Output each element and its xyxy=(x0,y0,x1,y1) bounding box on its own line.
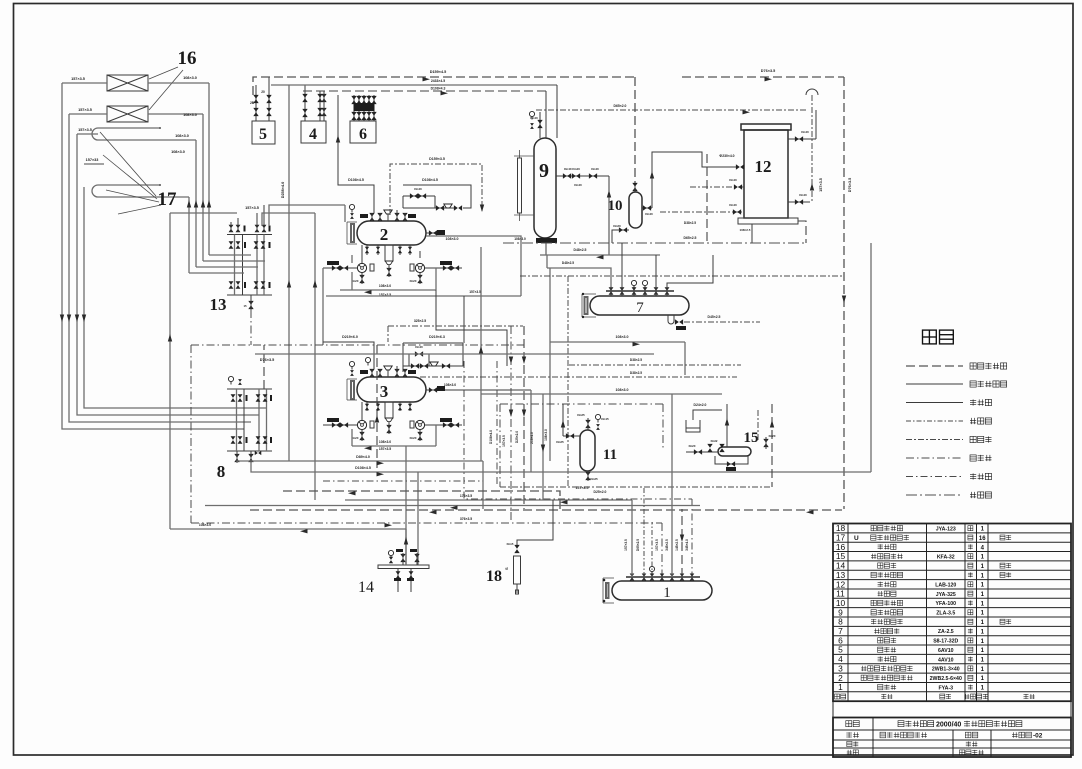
heat exchanger 16a (crossed box) xyxy=(107,75,148,91)
left drop from pump discharge xyxy=(322,268,324,345)
svg-text:D159×4.5: D159×4.5 xyxy=(430,70,447,74)
svg-text:D65×2.5: D65×2.5 xyxy=(684,236,697,240)
vessel 7 receiver xyxy=(590,296,689,315)
station 13 valve row 2 xyxy=(229,241,234,248)
svg-text:Dn25: Dn25 xyxy=(577,413,585,417)
svg-text:2433×4.5: 2433×4.5 xyxy=(431,79,445,83)
svg-text:D65×2.0: D65×2.0 xyxy=(614,104,627,108)
loop lower line xyxy=(326,295,436,297)
pipe 157x3.5 into HX16a xyxy=(62,82,107,84)
drop line right xyxy=(417,472,419,565)
station 8 top dashed vent D76x3.5 xyxy=(263,345,265,389)
vessel 3 top valves xyxy=(369,369,374,377)
vessel 10 left drain valve xyxy=(620,229,629,231)
vessel 1 drain barrel xyxy=(612,581,712,600)
svg-text:Dn25: Dn25 xyxy=(590,477,598,481)
svg-text:D89×4.0: D89×4.0 xyxy=(356,455,370,459)
svg-text:Dn20: Dn20 xyxy=(352,279,359,283)
svg-text:Dn20: Dn20 xyxy=(769,434,776,438)
legend row 空气管 xyxy=(906,457,963,459)
legend row 液体管 xyxy=(906,402,963,404)
svg-text:Dn15: Dn15 xyxy=(507,542,514,546)
svg-text:108×3.0: 108×3.0 xyxy=(544,429,548,441)
svg-text:15: 15 xyxy=(243,304,247,308)
svg-text:108×2.5: 108×2.5 xyxy=(740,228,751,232)
long liquid line 108x3.0 xyxy=(255,353,654,355)
vessel 3 recirculation loop xyxy=(352,445,436,447)
svg-text:Dn40: Dn40 xyxy=(574,183,582,187)
station 8 valve row 2 xyxy=(231,436,236,443)
air bottom trunk D76x3.5 xyxy=(191,522,662,524)
vessel 7 gauges xyxy=(631,280,636,288)
vessel 12 inlet valve xyxy=(736,164,744,169)
svg-text:325×2.5: 325×2.5 xyxy=(414,319,426,323)
svg-text:157×3.5: 157×3.5 xyxy=(245,206,259,210)
coil feed pipe 157x3.5 xyxy=(77,133,98,135)
instrument 18 riser xyxy=(517,500,553,545)
pump discharge left vessel 3 xyxy=(323,424,357,426)
svg-text:Dn20: Dn20 xyxy=(613,224,621,228)
ammonia pump P2b xyxy=(415,263,424,272)
station 13 drain dash-dot xyxy=(250,310,252,345)
gray riser x550 under 9 xyxy=(549,268,551,461)
unit 5 risers with valves xyxy=(255,85,257,121)
hp dashed bottom trunk lower xyxy=(250,509,842,511)
vessel 7 riser a xyxy=(621,243,623,286)
liquid line 157x3.5 bottom xyxy=(345,499,632,501)
vessel 12 top flange xyxy=(741,124,791,130)
svg-text:Dn25: Dn25 xyxy=(556,440,564,444)
svg-text:2000/40: 2000/40 xyxy=(936,721,961,728)
svg-text:108×3.0: 108×3.0 xyxy=(199,523,211,527)
svg-text:345×2.5: 345×2.5 xyxy=(665,539,669,551)
vessel 3 gauge circle top xyxy=(365,357,370,365)
svg-text:D219×6.0: D219×6.0 xyxy=(342,335,358,339)
vessel 3 low pressure receiver xyxy=(357,377,426,402)
vessel 9 top gauge xyxy=(529,111,534,119)
manifold 14 riser xyxy=(405,529,407,565)
riser to coil return b xyxy=(195,140,197,267)
heat exchanger 16b (crossed box) xyxy=(107,106,148,122)
vertical dashed drop to vessel 10 xyxy=(634,77,636,185)
vessel 2 level gauge xyxy=(351,224,354,242)
svg-text:Dn20: Dn20 xyxy=(352,436,359,440)
vessel 3 feed line D219x6.0 xyxy=(323,342,374,369)
safety drop right of 12 xyxy=(811,95,813,202)
trunk D133x4.5 xyxy=(271,84,557,86)
svg-text:D108×4.5: D108×4.5 xyxy=(348,178,364,182)
svg-text:1: 1 xyxy=(663,585,671,601)
vessel 9 level gauge xyxy=(518,158,522,213)
oil collector enclosure dash-dot xyxy=(500,403,663,405)
svg-text:D76×3.5: D76×3.5 xyxy=(761,69,775,73)
station 8 outlet D108x4.5 xyxy=(251,463,871,472)
unit 4 box xyxy=(301,121,326,143)
svg-text:D76×3.5: D76×3.5 xyxy=(260,358,274,362)
svg-text:108×3.0: 108×3.0 xyxy=(615,388,628,392)
svg-text:Dn40 Dn40: Dn40 Dn40 xyxy=(564,167,580,171)
svg-text:Dn40: Dn40 xyxy=(729,203,737,207)
svg-text:2WB1-3×40: 2WB1-3×40 xyxy=(932,667,960,673)
liquid line 108x3.0 to 15 xyxy=(550,341,685,343)
oil drain network to vessel 1 xyxy=(464,361,692,499)
left riser pipe 3 xyxy=(77,134,259,415)
svg-text:6AV10: 6AV10 xyxy=(938,648,954,654)
high pressure trunk D76x3.5 top right xyxy=(682,76,844,78)
vessel 9 drain pipe to 7 xyxy=(546,255,548,268)
svg-text:157×3.5: 157×3.5 xyxy=(655,539,659,551)
svg-text:108×3.0: 108×3.0 xyxy=(379,440,391,444)
svg-text:12: 12 xyxy=(755,157,772,176)
vessel 3 centre drop xyxy=(385,402,393,418)
line 108x3.0 from vessel 2 right xyxy=(426,236,521,268)
liquid line 2 bottom xyxy=(205,505,700,507)
station 13 top feed 157x3.5 xyxy=(170,212,237,214)
safety header to vessel 12 xyxy=(536,109,806,111)
svg-text:345×4.0: 345×4.0 xyxy=(685,539,689,551)
svg-text:219×4.0: 219×4.0 xyxy=(530,432,534,444)
svg-text:D48×2.5: D48×2.5 xyxy=(574,248,587,252)
vessel 2 top valves xyxy=(369,213,374,221)
vessel 11 oil collector xyxy=(580,430,595,471)
vessel 12 left lower dashed xyxy=(660,211,744,213)
station 13 inlet valve row above header xyxy=(229,225,234,232)
hp dashed bottom trunk upper xyxy=(283,491,560,510)
svg-text:D159×3.5: D159×3.5 xyxy=(429,157,445,161)
vessel 1 valve header xyxy=(626,576,700,578)
vessel 2 relief loop xyxy=(403,195,435,197)
riser from HX16a xyxy=(208,83,210,255)
vessel 7 drain xyxy=(668,315,674,324)
svg-text:D108×4.0: D108×4.0 xyxy=(489,430,493,444)
unit 15 separator body xyxy=(718,447,751,456)
svg-text:2B: 2B xyxy=(250,101,255,105)
unit 15 right valve xyxy=(763,439,768,447)
svg-text:S8-17-32D: S8-17-32D xyxy=(933,639,958,645)
vessel 2 recirculation loop xyxy=(340,289,436,291)
safety drop x568 xyxy=(567,276,569,487)
legend row 安全管 xyxy=(906,439,963,441)
svg-text:17: 17 xyxy=(158,189,178,210)
vessel 3 feed funnel xyxy=(384,366,392,370)
svg-text:JYA-325: JYA-325 xyxy=(936,592,956,598)
drop from 15 line xyxy=(684,342,686,375)
svg-text:157×3.5: 157×3.5 xyxy=(624,539,628,551)
unit 15 open box xyxy=(686,420,700,432)
drain trunk D45x2.5 dash-dot xyxy=(503,242,806,244)
svg-text:D48×2.5: D48×2.5 xyxy=(562,261,574,265)
legend row 平衡管 xyxy=(906,420,963,422)
svg-text:D258×4.0: D258×4.0 xyxy=(281,182,285,199)
legend title tu-li xyxy=(923,330,937,344)
vessel 2 suction stems xyxy=(366,245,368,255)
vessel 12 dashed drop D38x2.5 xyxy=(706,154,708,243)
svg-text:Dn20: Dn20 xyxy=(410,436,417,440)
vessel 7 top valve row xyxy=(606,290,674,292)
pipe down from 9 outlet xyxy=(608,176,610,255)
svg-text:-02: -02 xyxy=(1033,732,1043,739)
station 13 drain valve xyxy=(248,301,253,309)
vessel 11 inlet valve left xyxy=(563,435,580,437)
riser x289 main suction D258x4.0 xyxy=(288,85,290,461)
svg-text:15: 15 xyxy=(744,430,759,446)
safety dashed bottom of enclosure xyxy=(500,486,772,488)
svg-text:157×3.5: 157×3.5 xyxy=(819,178,823,192)
svg-text:3: 3 xyxy=(380,382,389,401)
air drop to vessel 1 xyxy=(661,523,663,577)
vessel 2 safety dashed line D159x3.5 xyxy=(390,164,482,215)
unit 15 riser with arrow xyxy=(726,404,728,447)
svg-text:D25×2.0: D25×2.0 xyxy=(515,431,519,443)
svg-text:U: U xyxy=(854,535,859,542)
svg-text:D76×3.5: D76×3.5 xyxy=(848,178,852,192)
svg-text:157×3.5: 157×3.5 xyxy=(78,108,92,112)
svg-text:157×33: 157×33 xyxy=(86,158,99,162)
svg-text:157×3.5: 157×3.5 xyxy=(502,435,506,447)
svg-text:18: 18 xyxy=(486,568,502,585)
svg-text:D219×6.3: D219×6.3 xyxy=(429,335,445,339)
pump discharge left xyxy=(323,267,357,269)
riser x315 to bottom xyxy=(314,213,316,500)
riser x345 xyxy=(344,205,346,222)
svg-text:Dn40: Dn40 xyxy=(801,130,809,134)
vessel 12 safety line left xyxy=(690,186,744,188)
vessel 12 bottom drain xyxy=(751,224,753,243)
svg-text:D108×4.5: D108×4.5 xyxy=(422,178,438,182)
pipe out of HX16b xyxy=(148,113,203,115)
vessel 12 top right valve xyxy=(788,138,816,140)
svg-text:D108×4.3: D108×4.3 xyxy=(431,87,446,91)
vessel 2 gauge instrument xyxy=(349,204,354,212)
svg-text:YFA-100: YFA-100 xyxy=(936,601,957,607)
vessel 9 middle cooler xyxy=(534,138,556,238)
vessel 3 drop to manifold 14 xyxy=(405,446,407,565)
legend row 放油管 xyxy=(906,476,963,478)
station 13 valve row 3 xyxy=(229,281,234,288)
svg-text:157×3.5: 157×3.5 xyxy=(379,447,391,451)
svg-text:108×3.0: 108×3.0 xyxy=(183,113,197,117)
svg-text:20: 20 xyxy=(261,90,265,94)
vertical from 12 area down right xyxy=(870,243,872,472)
svg-text:108×3.0: 108×3.0 xyxy=(445,237,458,241)
svg-text:2: 2 xyxy=(380,225,389,244)
ammonia pump P2a xyxy=(357,263,366,272)
svg-text:16: 16 xyxy=(178,48,197,69)
U-coil 17 upper xyxy=(98,127,160,129)
hook jump symbol xyxy=(806,89,818,95)
station 8 drain valves xyxy=(234,454,239,462)
vessel 7 riser b xyxy=(655,255,657,286)
svg-text:2WB2.5-6×40: 2WB2.5-6×40 xyxy=(930,676,962,682)
svg-text:Dn40: Dn40 xyxy=(591,167,599,171)
title row ban-ji / ri-qi xyxy=(847,741,852,746)
title row xing-ming / zhi-dao xyxy=(847,750,852,755)
station 8 risers xyxy=(236,389,238,451)
unit 6 riser cluster with valves xyxy=(353,95,355,121)
vessel 10 right outlet xyxy=(642,207,652,209)
svg-text:157×3.5: 157×3.5 xyxy=(575,486,588,490)
svg-text:108×3.0: 108×3.0 xyxy=(379,284,391,288)
svg-text:D38×2.5: D38×2.5 xyxy=(630,371,642,375)
long liquid line to right xyxy=(481,393,722,395)
dashed drop right of 15 xyxy=(757,410,759,440)
valve station 8 headers xyxy=(227,388,272,390)
liquid drop x543 to bottom xyxy=(542,394,544,500)
BOM to title gap sides xyxy=(832,701,834,717)
pump discharge right vessel 3 xyxy=(425,424,462,426)
station 8 outlet D89x4.0 xyxy=(237,461,483,463)
svg-text:14: 14 xyxy=(358,579,374,596)
svg-text:13: 13 xyxy=(210,295,227,314)
oil return line D48x2.5 xyxy=(540,254,547,256)
svg-text:ZLA-3.5: ZLA-3.5 xyxy=(936,611,955,617)
riser to coil 17 return a xyxy=(188,197,190,273)
drop from vessel2 loop to relief 3 xyxy=(436,290,507,366)
ammonia pump P3b xyxy=(415,420,424,429)
unit 15 feed D24x2.0 xyxy=(693,410,722,420)
legend row 低压气体管 xyxy=(906,383,963,385)
svg-text:Φ230×4.0: Φ230×4.0 xyxy=(719,154,734,158)
vessel 1 left bracket xyxy=(602,578,604,603)
vessel 3 level gauge xyxy=(351,381,354,399)
vessel 12 bottom flange xyxy=(738,218,798,224)
vessel 9 riser to trunk xyxy=(545,91,547,138)
vessel 7 drain dashed D45x2.5 xyxy=(684,321,760,323)
title row tu-ming xyxy=(846,732,852,738)
station 13 left header riser xyxy=(169,213,171,529)
safety segment above vessel 3 xyxy=(388,325,523,327)
unit 6 box xyxy=(350,121,376,143)
instrument 18 valve xyxy=(514,545,519,553)
pipe 157x3.5 into HX16b xyxy=(69,113,107,115)
svg-text:D24×2.0: D24×2.0 xyxy=(694,403,707,407)
vessel 1 valve row xyxy=(630,574,635,581)
left riser pipe 2 xyxy=(69,114,251,422)
unit 5 box xyxy=(252,121,275,144)
svg-text:11: 11 xyxy=(603,447,617,463)
unit 15 inlet valves xyxy=(686,451,718,453)
svg-text:D65×2.5: D65×2.5 xyxy=(636,539,640,551)
svg-text:Dn20: Dn20 xyxy=(689,444,696,448)
manifold 14 bottom stems xyxy=(397,569,399,593)
station 13 risers xyxy=(234,235,236,296)
svg-text:ZA-2.5: ZA-2.5 xyxy=(938,629,954,635)
svg-text:145×2.5: 145×2.5 xyxy=(675,539,679,551)
svg-text:6: 6 xyxy=(359,126,367,143)
pump suction manifold vessel 2 xyxy=(351,255,353,263)
vessel 2 feed funnel xyxy=(384,210,392,214)
svg-text:JYA-123: JYA-123 xyxy=(936,526,956,532)
station 8 gauge xyxy=(228,376,233,384)
svg-text:7: 7 xyxy=(636,300,644,316)
trunk D108x4.3 dashed xyxy=(303,90,546,92)
hp dashed riser x377 xyxy=(376,345,378,468)
hp dashed drop x524 xyxy=(523,326,525,509)
vessel 2 centre drop funnel xyxy=(385,245,393,261)
line to vessel 9 area xyxy=(436,295,521,297)
safety dashed pair above 11 xyxy=(569,364,741,366)
svg-text:108×3.0: 108×3.0 xyxy=(183,76,197,80)
pipe from 10 up to 12 xyxy=(652,152,738,208)
svg-text:Dn20: Dn20 xyxy=(410,279,417,283)
svg-text:LAB-120: LAB-120 xyxy=(935,582,956,588)
svg-text:D25×2.0: D25×2.0 xyxy=(594,490,607,494)
vessel 1 risers xyxy=(631,500,633,577)
svg-text:S: S xyxy=(504,567,509,570)
svg-text:108×3.0: 108×3.0 xyxy=(175,134,189,138)
unit 15 drain loop xyxy=(715,456,748,464)
svg-text:D45×2.5: D45×2.5 xyxy=(708,315,721,319)
liquid pipe under 9 D48x2.5 xyxy=(547,254,660,256)
charging manifold 14 bar xyxy=(378,565,429,569)
title row ti-ming xyxy=(846,721,852,727)
title block grid xyxy=(833,718,1071,758)
vessel 12 right drop to drain xyxy=(798,221,806,243)
air header left drop xyxy=(190,345,192,523)
svg-text:9: 9 xyxy=(539,160,549,182)
svg-text:176×3.5: 176×3.5 xyxy=(460,494,472,498)
left riser pipe 4 xyxy=(84,187,267,408)
svg-text:Dn40: Dn40 xyxy=(415,345,423,349)
vessel 11 bottom valve xyxy=(585,472,590,480)
legend row 高压气体管 xyxy=(906,365,963,367)
vessel 12 condenser body xyxy=(744,130,788,218)
vertical dashed x772 xyxy=(771,404,773,487)
vessel 12 right lower valve xyxy=(788,201,810,203)
oil dashed segment under vessel3 xyxy=(323,480,483,482)
svg-text:Dn40: Dn40 xyxy=(645,212,653,216)
svg-text:16: 16 xyxy=(979,536,986,542)
vessel 9 top riser and valve xyxy=(539,112,541,138)
vessel 2 low pressure receiver xyxy=(357,221,426,245)
vessel 3 relief loop D219x6.3 xyxy=(403,342,463,344)
station 8 valve row 1 xyxy=(231,394,236,401)
valve station 13 headers xyxy=(227,234,272,236)
vessel 3 gauge instrument xyxy=(349,361,354,369)
liquid line 108x3.0 to manifold xyxy=(170,528,406,530)
svg-text:157×3.5: 157×3.5 xyxy=(469,290,481,294)
svg-text:108×3.0: 108×3.0 xyxy=(514,237,526,241)
svg-text:157×3.5: 157×3.5 xyxy=(71,77,85,81)
unit 4 risers with valves xyxy=(304,85,306,121)
svg-text:8: 8 xyxy=(217,462,226,481)
riser from HX16b xyxy=(202,114,204,261)
svg-text:108×3.0: 108×3.0 xyxy=(444,383,456,387)
ammonia pump P3a xyxy=(357,420,366,429)
svg-text:157×3.5: 157×3.5 xyxy=(78,128,92,132)
feed from unit 6 D108x4.5 xyxy=(338,95,374,213)
pump discharge right xyxy=(425,267,462,269)
vessel 7 level gauge xyxy=(585,297,588,314)
vessel 10 oil separator xyxy=(629,192,642,228)
oil drain drop x497 xyxy=(496,361,498,487)
high pressure trunk D159x4.5 xyxy=(253,77,635,95)
gauge above vessel 1 xyxy=(649,566,654,574)
svg-text:108×3.0: 108×3.0 xyxy=(171,150,185,154)
BOM header row xyxy=(835,694,840,699)
U-coil 17 lower xyxy=(98,184,160,186)
safety dashed over vessel 7 xyxy=(520,275,844,277)
svg-text:108×3.0: 108×3.0 xyxy=(615,335,628,339)
vessel 10 top valve xyxy=(632,183,637,191)
svg-text:D38×2.5: D38×2.5 xyxy=(684,221,696,225)
svg-text:5: 5 xyxy=(259,126,267,143)
manifold 14 top fittings xyxy=(388,550,393,558)
gray riser x481 xyxy=(480,247,482,461)
vessel 11 gauge xyxy=(595,414,600,422)
air purge header dash-dot xyxy=(191,344,524,346)
pipe 108x3.0 out of HX16a xyxy=(148,82,209,84)
